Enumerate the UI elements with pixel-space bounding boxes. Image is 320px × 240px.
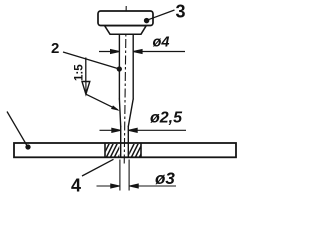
extension line Ø3 right — [128, 160, 130, 191]
bushing right edge — [140, 144, 142, 157]
leader label 2 — [63, 52, 121, 71]
extension line Ø3 left — [97, 160, 177, 191]
taper symbol open triangle — [82, 82, 90, 95]
dimension Ø4 line right — [134, 51, 185, 53]
taper symbol reference line — [82, 58, 120, 111]
pin tip left edge — [120, 127, 122, 158]
dimension Ø3 line right — [130, 185, 176, 187]
dimension Ø4 line left — [99, 50, 185, 54]
taper right edge — [128, 99, 133, 127]
svg-text:ø2,5: ø2,5 — [150, 110, 183, 127]
taper left edge — [119, 99, 120, 127]
bushing left edge — [104, 144, 106, 157]
hatching left block — [101, 142, 126, 160]
svg-text:1:5: 1:5 — [74, 64, 86, 81]
svg-text:2: 2 — [51, 40, 59, 57]
shaft left edge — [118, 34, 120, 99]
centerline — [124, 6, 126, 166]
taper symbol stem inside triangle — [85, 82, 87, 94]
shaft right edge — [132, 34, 134, 99]
dimension Ø2,5 line left — [100, 128, 187, 132]
plate (part 1) — [14, 143, 236, 157]
taper leader to taper surface — [86, 94, 118, 110]
svg-text:ø4: ø4 — [153, 35, 170, 51]
hatching right block — [126, 142, 147, 160]
dimension Ø3 line left — [97, 185, 119, 187]
pin head cap (part 3) — [98, 11, 153, 26]
svg-text:ø3: ø3 — [155, 169, 175, 188]
dimension Ø2,5 line right — [130, 129, 187, 131]
pin tip right edge — [127, 127, 129, 158]
leader label 3 — [145, 10, 175, 23]
svg-text:4: 4 — [71, 176, 81, 194]
leader plate (left) — [7, 112, 30, 150]
leader label 4 — [82, 159, 114, 176]
cap collar trapezoid — [105, 26, 147, 35]
svg-text:3: 3 — [176, 2, 186, 22]
